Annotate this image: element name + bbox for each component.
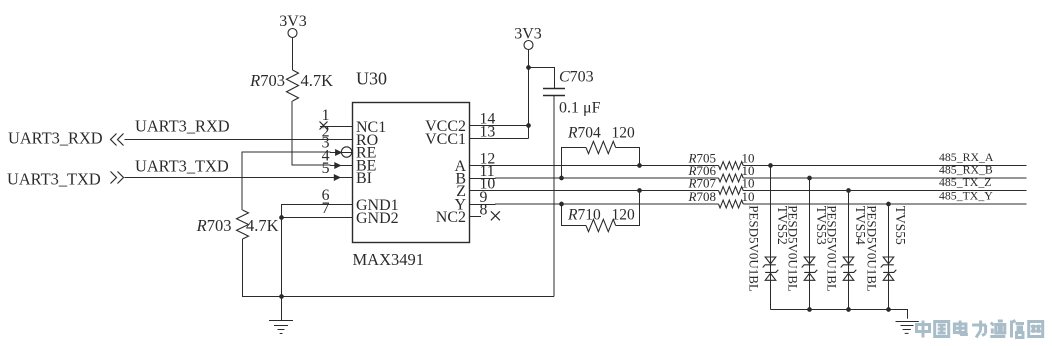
U30 pin 7 GND2 number	[322, 200, 330, 217]
wire GND2 pin 7	[282, 217, 353, 219]
wire GND1 pin 6	[282, 205, 353, 297]
net label UART3_RXD	[135, 117, 230, 136]
U30 pin 9 Y number	[480, 189, 488, 206]
svg-text:GND2: GND2	[356, 210, 399, 227]
junction TVS55/net Y	[886, 202, 891, 207]
wire net B (pin side)	[470, 177, 719, 180]
junction TVS54/net Z	[846, 188, 851, 193]
resistor R703 4.7K pull-up	[249, 70, 333, 101]
U30 pin 12 A number	[480, 151, 496, 168]
svg-text:BI: BI	[356, 170, 372, 187]
power 3V3 (VCC supply)	[514, 26, 542, 50]
junction TVS52/net A	[768, 163, 773, 168]
wire R703 pull-down to ground rail	[242, 239, 244, 297]
svg-text:120: 120	[612, 207, 636, 224]
junction R710/Z	[637, 188, 642, 193]
junction ground rail / GND stem	[279, 294, 284, 299]
svg-text:10: 10	[742, 189, 755, 204]
U30 pin 10 Z number	[480, 176, 496, 193]
net label 485_RX_A	[939, 150, 994, 164]
junction TVS bus	[846, 307, 851, 312]
TVS diode TVS54 PESD5V0U1BL	[825, 191, 868, 310]
U30 pin 6 GND1 number	[322, 187, 330, 204]
TVS diode TVS55 PESD5V0U1BL	[865, 204, 908, 310]
resistor R703 4.7K pull-down	[196, 210, 279, 239]
junction 3V3/C703 branch	[526, 65, 531, 70]
wire net B to 485_RX_B	[743, 177, 1026, 179]
U30 pin 5 BI number	[322, 160, 330, 177]
wire 3V3 to C703	[529, 68, 555, 89]
svg-text:R704: R704	[567, 125, 601, 142]
U30 pin 13 VCC1 number	[480, 124, 496, 141]
svg-text:C703: C703	[559, 69, 594, 86]
svg-text:UART3_TXD: UART3_TXD	[135, 157, 229, 176]
svg-text:PESD5V0U1BL: PESD5V0U1BL	[865, 205, 880, 292]
resistor R704 120 termination A-B	[562, 125, 640, 179]
svg-text:R708: R708	[688, 189, 716, 204]
wire net Y to 485_TX_Y	[743, 203, 1026, 205]
junction R704/B	[559, 176, 564, 181]
wire VCC2 pin 14	[470, 125, 529, 127]
wire UART3_RXD to RO pin 2	[125, 139, 353, 141]
wire RE pin 3 to pull-down R703	[242, 149, 353, 210]
svg-text:UART3_TXD: UART3_TXD	[7, 170, 101, 189]
net label 485_TX_Y	[939, 188, 993, 202]
U30 pin 14 VCC2 number	[480, 111, 496, 128]
svg-text:MAX3491: MAX3491	[353, 250, 425, 269]
wire ground rail	[242, 296, 554, 298]
TVS diode TVS52 PESD5V0U1BL	[747, 166, 790, 310]
junction TVS bus	[807, 307, 812, 312]
svg-text:3V3: 3V3	[279, 13, 307, 30]
wire UART3_TXD to BI pin 5	[125, 174, 353, 181]
svg-text:4.7K: 4.7K	[246, 216, 279, 235]
U30 pin 11 B number	[480, 163, 495, 180]
watermark 中国电力通信网	[917, 321, 1043, 338]
port UART3_RXD	[8, 129, 124, 148]
resistor R705 10	[688, 150, 755, 169]
svg-text:3V3: 3V3	[514, 26, 542, 43]
U30 pin 4 BE number	[322, 148, 330, 165]
junction VCC2	[526, 123, 531, 128]
port UART3_TXD	[7, 170, 124, 189]
U30 pin 3 RE number	[322, 135, 330, 152]
wire C703 to ground rail	[553, 96, 555, 297]
pin 3 RE inversion bubble	[341, 147, 351, 157]
svg-text:R703: R703	[196, 216, 232, 235]
wire 3V3 to VCC pins	[528, 49, 530, 138]
wire net Y (pin side)	[470, 203, 719, 206]
resistor R710 120 termination Z-Y	[562, 191, 640, 232]
junction TVS53/net B	[807, 176, 812, 181]
svg-text:R703: R703	[249, 71, 285, 90]
wire net Z to 485_TX_Z	[743, 190, 1026, 192]
U30 pin 8 NC2 no-connect	[470, 202, 500, 221]
wire net A (pin side)	[470, 165, 719, 167]
wire VCC1 pin 13	[470, 138, 529, 140]
wire 3V3 to R703	[292, 37, 294, 70]
resistor R707 10	[688, 175, 755, 194]
svg-text:4.7K: 4.7K	[301, 71, 334, 90]
label U30	[356, 69, 387, 89]
junction R710/Y	[559, 202, 564, 207]
TVS diode TVS53 PESD5V0U1BL	[786, 178, 829, 310]
wire net A to 485_RX_A	[743, 165, 1026, 167]
U30 pin 1 NC1 no-connect	[320, 107, 353, 129]
svg-text:120: 120	[612, 125, 636, 142]
svg-text:R710: R710	[567, 207, 601, 224]
resistor R708 10	[688, 189, 755, 208]
junction GND2	[279, 215, 284, 220]
svg-text:1: 1	[322, 107, 330, 124]
svg-text:UART3_RXD: UART3_RXD	[8, 129, 103, 148]
svg-text:NC2: NC2	[436, 209, 466, 226]
power 3V3 (pull-up supply)	[279, 13, 307, 38]
wire TVS common bus	[771, 310, 908, 319]
svg-text:TVS55: TVS55	[893, 206, 908, 245]
svg-text:7: 7	[322, 200, 330, 217]
capacitor C703	[543, 69, 601, 117]
svg-text:PESD5V0U1BL: PESD5V0U1BL	[786, 205, 801, 292]
svg-text:PESD5V0U1BL: PESD5V0U1BL	[747, 205, 762, 292]
ground symbol (left)	[269, 297, 293, 334]
wire net Z (pin side)	[470, 190, 719, 192]
net label 485_RX_B	[939, 162, 993, 176]
resistor R706 10	[688, 163, 755, 182]
svg-text:0.1 μF: 0.1 μF	[559, 100, 601, 117]
svg-text:485_TX_Z: 485_TX_Z	[939, 175, 991, 189]
svg-text:5: 5	[322, 160, 330, 177]
wire R703 to BE pin 4	[292, 101, 353, 169]
junction R704/A	[637, 163, 642, 168]
label MAX3491	[353, 250, 425, 269]
junction TVS bus	[886, 307, 891, 312]
svg-text:485_TX_Y: 485_TX_Y	[939, 188, 993, 202]
svg-text:PESD5V0U1BL: PESD5V0U1BL	[825, 205, 840, 292]
svg-text:U30: U30	[356, 69, 387, 89]
ground symbol (TVS bus)	[896, 322, 919, 334]
svg-text:UART3_RXD: UART3_RXD	[135, 117, 230, 136]
IC U30 MAX3491 body	[353, 103, 470, 243]
net label 485_TX_Z	[939, 175, 991, 189]
svg-text:VCC1: VCC1	[425, 131, 466, 148]
net label UART3_TXD	[135, 157, 229, 176]
U30 pin 2 RO number	[322, 123, 330, 140]
